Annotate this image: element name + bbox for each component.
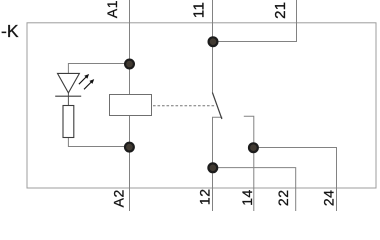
wire node 14 to 24: [254, 148, 337, 212]
wire node 12 to 22: [213, 168, 296, 211]
svg-text:-K: -K: [1, 21, 19, 41]
wire A1 vertical: [129, 0, 131, 95]
wire LED branch top: [68, 64, 129, 74]
LED arrow 1: [79, 74, 89, 84]
wire A2 vertical: [129, 116, 131, 212]
svg-text:22: 22: [275, 190, 291, 207]
junction node 12: [208, 163, 217, 172]
svg-text:24: 24: [321, 190, 337, 207]
junction node A2: [125, 143, 134, 152]
LED arrow 2: [84, 79, 94, 89]
text labels layer: [1, 0, 337, 207]
contact blade: [212, 93, 222, 120]
svg-text:11: 11: [191, 2, 208, 18]
wire resistor bottom to A2: [68, 138, 129, 147]
wire 11 vertical: [212, 0, 214, 93]
device outline box: [27, 23, 376, 188]
wire 21 vertical and horizontal to node 11: [213, 0, 297, 42]
svg-text:14: 14: [239, 189, 255, 206]
svg-text:A1: A1: [104, 0, 120, 18]
wire contact 14 L-shape and vertical: [244, 116, 254, 211]
junction node 14: [249, 143, 258, 152]
wire LED to resistor: [67, 93, 69, 106]
junction node 11: [209, 37, 218, 46]
LED cathode bar: [55, 95, 81, 97]
svg-text:21: 21: [272, 2, 289, 19]
junction node A1: [125, 60, 134, 69]
svg-text:12: 12: [197, 189, 213, 206]
mechanical link dashed line: [153, 105, 216, 107]
svg-text:A2: A2: [111, 189, 127, 207]
relay coil K: [110, 95, 152, 116]
resistor R1: [63, 106, 74, 138]
LED D1 triangle: [58, 73, 80, 93]
wire contact 12 L-shape and vertical: [213, 117, 223, 211]
